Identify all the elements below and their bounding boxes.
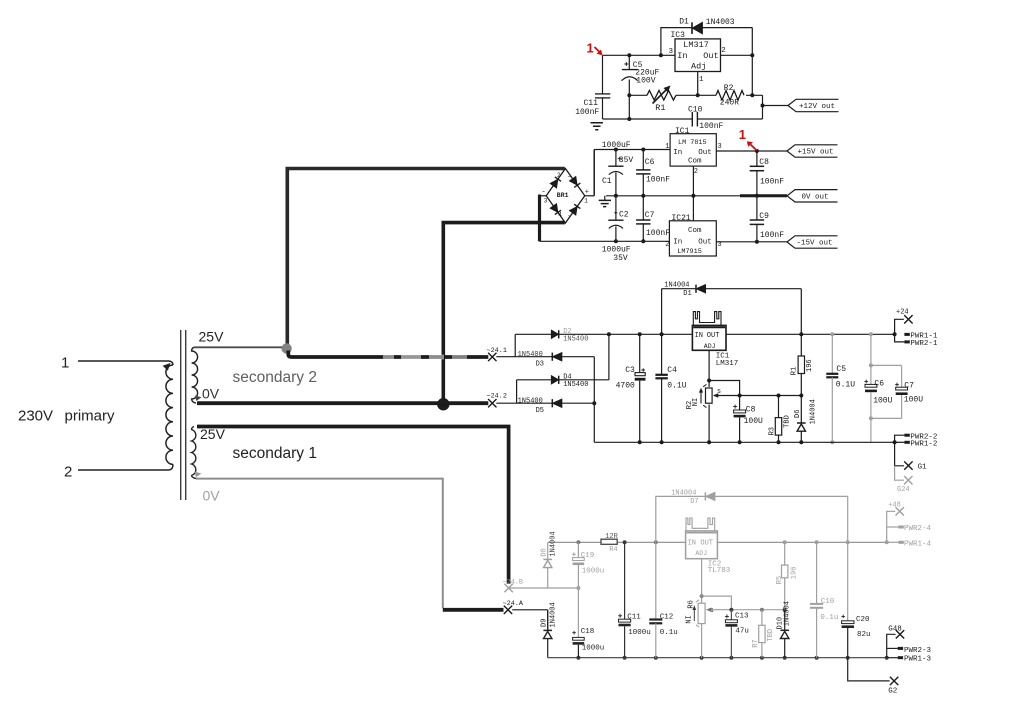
svg-text:1N5400: 1N5400 [518, 351, 543, 359]
diode D4 1N5400 [517, 379, 552, 381]
svg-text:-15V out: -15V out [797, 240, 833, 248]
node junction D1 branch [659, 53, 663, 57]
svg-text:R1: R1 [791, 367, 799, 375]
svg-text:Com: Com [688, 227, 702, 235]
capacitor C2 1000uF 35V [615, 196, 617, 220]
connector G2 [890, 677, 898, 685]
svg-text:C19: C19 [581, 552, 595, 560]
svg-text:0V out: 0V out [802, 193, 829, 201]
connector +48 gray [887, 511, 896, 542]
capacitor C7 100U plates [896, 387, 908, 390]
wire IC3 Adj down [697, 72, 699, 96]
svg-text:~24.A: ~24.A [503, 600, 524, 608]
connector PWR2-4 gray [887, 526, 899, 528]
svg-text:+48: +48 [888, 502, 901, 510]
diode D2 1N5400 [515, 333, 551, 335]
wire ~24.A to D9 [512, 609, 548, 611]
diode D10 1N4004 [784, 610, 786, 631]
svg-text:Out: Out [698, 239, 712, 247]
svg-text:Out: Out [703, 51, 718, 61]
svg-text:3: 3 [544, 197, 548, 204]
connector X ~24.A [504, 606, 512, 614]
capacitor C12 0.1u [655, 542, 657, 619]
wire Com pins vertical [692, 166, 694, 221]
wire thick secondary2 25V to bridge [287, 169, 565, 351]
capacitor C11 1000u [624, 542, 626, 619]
svg-text:C9: C9 [759, 212, 769, 221]
node gray junction secondary2 25V [281, 343, 291, 353]
regulator IC2 TL783 TO220 package gray [686, 518, 715, 531]
svg-text:240R: 240R [720, 99, 739, 108]
capacitor C19 1000u gray [577, 542, 579, 557]
svg-text:LM317: LM317 [716, 360, 739, 368]
svg-text:1N4004: 1N4004 [810, 399, 818, 424]
svg-text:C8: C8 [746, 406, 756, 415]
svg-text:0.1U: 0.1U [836, 380, 855, 389]
svg-text:1N5400: 1N5400 [518, 397, 543, 405]
svg-text:25V: 25V [199, 328, 225, 344]
svg-text:R7: R7 [752, 639, 760, 647]
svg-text:IC1: IC1 [675, 127, 690, 136]
svg-text:D6: D6 [794, 410, 802, 418]
capacitor C8 100nF [756, 151, 758, 166]
wire to G2 [848, 658, 890, 681]
svg-text:1N4004: 1N4004 [549, 602, 557, 627]
wire pot R6 bottom [701, 624, 703, 658]
wire wiper row (+48 section) [708, 609, 785, 611]
regulator IC1 LM317 TO220 package (+24 section) [693, 312, 721, 326]
connector PWR2-2 [895, 435, 905, 442]
wire pot bottom to ground rail [708, 405, 710, 443]
connector PWR1-4 gray [887, 541, 899, 543]
svg-text:PWR1-4: PWR1-4 [904, 540, 932, 548]
svg-text:1000u: 1000u [582, 645, 605, 653]
svg-text:ADJ: ADJ [704, 343, 716, 350]
svg-text:BR1: BR1 [557, 192, 569, 199]
svg-text:~: ~ [568, 213, 572, 220]
svg-text:D8: D8 [541, 548, 549, 556]
connector +24 [895, 319, 904, 334]
wire secondary2 25V to gray node [194, 346, 282, 348]
regulator IC1 LM7815 box [670, 134, 716, 166]
svg-text:100nF: 100nF [646, 229, 670, 238]
wire bottom rail (+48 section) [548, 657, 887, 659]
svg-text:C6: C6 [874, 380, 884, 389]
ground symbol [591, 123, 604, 130]
svg-text:TBD: TBD [784, 415, 792, 428]
wire stub up to D2 [514, 334, 516, 356]
connector G1 [895, 442, 904, 466]
svg-text:C1: C1 [602, 177, 612, 186]
svg-text:1N4004: 1N4004 [671, 490, 696, 498]
potentiometer R2 (+24 section) [706, 388, 713, 403]
svg-text:35V: 35V [613, 254, 628, 263]
svg-text:D1: D1 [679, 18, 689, 27]
svg-text:C10: C10 [821, 598, 835, 606]
svg-text:12R: 12R [605, 533, 618, 541]
svg-text:1N4004: 1N4004 [664, 281, 689, 289]
wire ADJ down (IC2) [701, 559, 703, 604]
svg-text:196: 196 [790, 567, 798, 580]
svg-text:In: In [673, 239, 682, 247]
svg-text:D9: D9 [541, 619, 549, 627]
capacitor C5 220uF 100V [628, 55, 630, 69]
svg-text:1: 1 [699, 76, 704, 84]
svg-text:C18: C18 [581, 628, 595, 636]
wire wiper row [714, 395, 801, 397]
capacitor C4 0.1U [661, 334, 663, 375]
wire stub up to D4 [516, 380, 518, 403]
ground symbol 0V rail [604, 196, 606, 201]
svg-text:Out: Out [698, 149, 712, 157]
wire ground rail (+24 section) [594, 441, 894, 443]
svg-text:PWR1-2: PWR1-2 [910, 441, 937, 449]
wire minus column [593, 357, 595, 443]
svg-text:C13: C13 [735, 612, 749, 620]
node junction C5 [627, 53, 631, 57]
wire input row to IC3 In [603, 54, 676, 56]
svg-text:IN: IN [695, 332, 703, 340]
connector PWR1-1 [904, 333, 909, 336]
transformer secondary 2 winding [192, 347, 198, 403]
wire ADJ down [708, 350, 710, 387]
svg-text:PWR1-3: PWR1-3 [904, 655, 932, 663]
svg-text:4700: 4700 [616, 381, 635, 390]
svg-text:In: In [677, 51, 687, 61]
capacitor C1 1000uF 35V [615, 150, 617, 167]
svg-text:C8: C8 [759, 158, 769, 167]
capacitor bus bottom [871, 417, 902, 419]
node black junction secondary2 0V [437, 398, 449, 410]
svg-text:1N4003: 1N4003 [706, 18, 735, 27]
connector PWR2-1 [895, 334, 905, 342]
connector -15V out [787, 236, 838, 248]
wire bridge plus output [585, 195, 594, 197]
svg-text:100U: 100U [873, 396, 892, 405]
svg-text:TL783: TL783 [708, 567, 731, 575]
diode D5 1N5400 [551, 399, 553, 407]
capacitor C13 47u [730, 610, 732, 620]
svg-text:LM 7815: LM 7815 [678, 139, 707, 147]
svg-text:+24: +24 [896, 309, 909, 317]
diode D1 1N4003 (bypass across IC3) [661, 28, 692, 56]
svg-text:2: 2 [694, 168, 698, 176]
capacitor C10 100nF (series in rail) [697, 118, 762, 120]
resistor R1 196 (+24 section) [800, 334, 802, 356]
connector X ~24.B gray [504, 584, 512, 592]
svg-text:LM7915: LM7915 [677, 248, 701, 256]
capacitor C3 4700 [639, 334, 641, 372]
svg-text:1N4004: 1N4004 [549, 531, 557, 556]
connector G24 gray [895, 466, 904, 480]
svg-text:OUT: OUT [700, 539, 713, 547]
svg-text:C7: C7 [904, 382, 914, 391]
resistor R4 12R [601, 539, 617, 544]
svg-text:~24.2: ~24.2 [487, 392, 507, 400]
svg-text:2: 2 [64, 464, 72, 481]
svg-text:C4: C4 [667, 366, 677, 375]
svg-text:Adj: Adj [691, 61, 706, 71]
svg-text:ADJ: ADJ [695, 550, 707, 557]
svg-text:R6: R6 [687, 600, 695, 608]
svg-text:C2: C2 [619, 210, 629, 219]
capacitor C6 100U plates [865, 384, 877, 387]
wire secondary1 25V down to ~24.B [197, 427, 509, 584]
svg-text:LM317: LM317 [683, 40, 709, 50]
svg-text:secondary 1: secondary 1 [233, 445, 317, 462]
svg-text:NI: NI [692, 398, 700, 406]
wire to +12V out [763, 105, 789, 107]
potentiometer R6 gray [698, 603, 705, 623]
svg-text:3: 3 [718, 143, 722, 151]
svg-text:Com: Com [688, 157, 702, 165]
connector PWR1-3 [887, 657, 898, 659]
wire 0V rail [606, 195, 740, 197]
resistor R2 240R [716, 91, 744, 101]
wire ADJ branch to C8 node [709, 381, 740, 396]
svg-text:In: In [673, 149, 682, 157]
capacitor C18 1000u [577, 588, 579, 638]
wire ADJ branch (IC2) [702, 596, 732, 610]
svg-text:D1: D1 [683, 290, 691, 298]
svg-text:0V: 0V [202, 385, 220, 401]
svg-text:1: 1 [665, 143, 669, 151]
wire thick ~24.A row [443, 608, 504, 612]
svg-text:1N5400: 1N5400 [563, 336, 588, 344]
svg-text:0V: 0V [203, 488, 221, 504]
svg-text:0.1U: 0.1U [667, 381, 686, 390]
wire ~24.2 to diodes [496, 402, 552, 404]
svg-text:4: 4 [558, 211, 562, 218]
svg-text:~: ~ [568, 173, 572, 180]
svg-text:25V: 25V [200, 426, 226, 442]
svg-text:1: 1 [584, 197, 588, 204]
svg-text:secondary 2: secondary 2 [233, 369, 317, 386]
wire ~24.1 to diodes [496, 356, 552, 358]
connector 0V out [787, 190, 838, 202]
svg-text:2: 2 [665, 241, 669, 249]
svg-text:R2: R2 [724, 84, 734, 93]
svg-text:100U: 100U [904, 396, 923, 405]
svg-text:C11: C11 [627, 614, 641, 622]
svg-text:+15V out: +15V out [798, 149, 834, 157]
svg-text:1000uF: 1000uF [602, 141, 631, 150]
diode D3 1N5400 [551, 353, 553, 361]
connector +15V out [787, 145, 838, 157]
svg-text:NI: NI [685, 615, 693, 623]
svg-text:OUT: OUT [707, 332, 720, 340]
capacitor C5 0.1U (+24 section) [831, 334, 833, 374]
svg-text:47u: 47u [735, 628, 749, 636]
transformer core [180, 330, 182, 500]
capacitor C7 100nF [642, 196, 644, 220]
svg-text:1: 1 [61, 355, 69, 372]
wire IC21 Out row [716, 241, 787, 243]
wire secondary1 0V down (gray) [196, 479, 443, 609]
connector PWR1-2 [895, 441, 905, 443]
svg-text:C3: C3 [625, 366, 635, 375]
svg-text:R5: R5 [776, 576, 784, 584]
regulator IC21 LM7915 box [669, 221, 716, 256]
transformer primary winding [166, 365, 173, 464]
potentiometer R1 (zigzag with arrow) [647, 91, 676, 101]
transformer secondary 1 winding [192, 427, 196, 479]
svg-text:G48: G48 [888, 625, 902, 633]
svg-text:2: 2 [557, 172, 561, 179]
svg-text:1: 1 [587, 41, 594, 56]
svg-text:R3: R3 [769, 427, 777, 435]
svg-text:1000u: 1000u [582, 568, 605, 576]
svg-text:0.1u: 0.1u [820, 614, 838, 622]
svg-text:C6: C6 [645, 158, 655, 167]
diode D9 1N4004 [547, 610, 549, 631]
capacitor C10 0.1u gray [816, 542, 818, 604]
svg-text:82u: 82u [857, 631, 871, 639]
svg-text:R4: R4 [609, 546, 617, 554]
svg-text:0.1u: 0.1u [660, 629, 678, 637]
wire top rail (+48 section) [548, 541, 601, 543]
svg-text:100nF: 100nF [575, 108, 599, 117]
svg-text:D7: D7 [690, 498, 698, 506]
svg-text:G2: G2 [888, 688, 897, 696]
svg-text:100nF: 100nF [760, 178, 784, 187]
wire thick ~24.2 (secondary2 0V row) [197, 401, 488, 405]
wire bridge minus output [540, 195, 547, 197]
bridge rectifier BR1 [546, 169, 585, 224]
svg-text:PWR2-1: PWR2-1 [910, 340, 938, 348]
svg-text:100U: 100U [744, 417, 763, 426]
svg-text:2: 2 [721, 47, 726, 55]
svg-text:C12: C12 [660, 614, 674, 622]
connector G48 [887, 634, 896, 657]
wire IC1 Out row [716, 150, 787, 152]
svg-text:C20: C20 [856, 616, 870, 624]
wire adjust row [629, 94, 647, 96]
diode D7 1N4004 gray bypass [656, 496, 706, 542]
svg-text:TBD: TBD [767, 629, 775, 642]
capacitors C6 C7 100U bus (+24 section) [870, 334, 872, 365]
svg-text:35V: 35V [619, 156, 634, 165]
svg-text:~24.B: ~24.B [503, 578, 523, 586]
svg-text:100nF: 100nF [646, 175, 670, 184]
diode D6 1N4004 [800, 396, 802, 424]
svg-text:C7: C7 [645, 211, 655, 220]
svg-text:IN: IN [688, 539, 696, 547]
wire out vertical to +12V row [751, 55, 753, 95]
svg-text:1N5400: 1N5400 [563, 381, 588, 389]
svg-text:PWR2-4: PWR2-4 [904, 525, 932, 533]
svg-text:primary: primary [65, 408, 116, 425]
svg-text:D5: D5 [536, 407, 544, 415]
capacitor C9 100nF [756, 196, 758, 220]
resistor R5 196 gray [784, 542, 786, 565]
connector +12V out [788, 99, 839, 111]
svg-text:1: 1 [739, 127, 746, 142]
capacitor C8 100U (+24 section) [739, 396, 741, 411]
svg-text:196: 196 [806, 359, 814, 372]
svg-text:100V: 100V [636, 77, 655, 86]
svg-text:C10: C10 [688, 105, 703, 114]
wire thick ~24.1 (secondary2 25V row) [288, 351, 488, 358]
diode D1 1N4004 (bypass, +24 section) [661, 289, 663, 335]
resistor R7 TBD gray [761, 610, 763, 626]
svg-text:100nF: 100nF [699, 122, 723, 131]
svg-text:C5: C5 [836, 365, 846, 374]
connector X ~24.1 [488, 353, 496, 361]
svg-text:3: 3 [669, 48, 674, 56]
svg-text:230V: 230V [18, 408, 53, 425]
svg-text:1000u: 1000u [628, 629, 651, 637]
svg-text:G1: G1 [918, 463, 928, 471]
capacitor C6 100nF [642, 150, 644, 170]
svg-text:D3: D3 [536, 361, 544, 369]
svg-text:1N4004: 1N4004 [784, 601, 792, 626]
op-amp-regulator IC3 LM317 box [675, 39, 721, 72]
wire ~24.B row gray [509, 587, 579, 589]
svg-text:G24: G24 [897, 486, 910, 494]
svg-text:IC21: IC21 [672, 214, 691, 223]
svg-text:+12V out: +12V out [799, 103, 835, 111]
wire IC3 Out [721, 54, 753, 56]
wire thick secondary2 0V to bridge [443, 223, 565, 404]
wire +24 out rail [726, 333, 895, 335]
ground rail (12V section) [603, 118, 693, 120]
svg-text:100nF: 100nF [760, 231, 784, 240]
connector X ~24.2 [488, 399, 496, 407]
capacitor C20 82u [847, 542, 849, 621]
capacitor C11 100nF [602, 55, 604, 93]
svg-text:~24.1: ~24.1 [487, 347, 507, 355]
resistor R3 TBD [778, 396, 780, 418]
diode D8 1N4004 gray [547, 542, 549, 559]
connector PWR2-3 [887, 647, 898, 649]
svg-text:R1: R1 [655, 103, 665, 113]
svg-text:PWR2-3: PWR2-3 [904, 647, 932, 655]
